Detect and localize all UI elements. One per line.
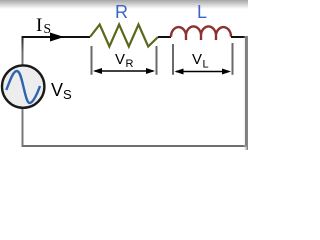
svg-text:L: L (197, 2, 207, 22)
svg-text:I: I (36, 15, 42, 36)
svg-text:R: R (126, 58, 134, 70)
svg-text:V: V (51, 80, 63, 100)
VR arrow (95, 70, 153, 72)
svg-text:S: S (44, 21, 52, 36)
wire bottom (22, 145, 248, 147)
wire left vertical from corner down to source top (22, 36, 24, 66)
svg-text:S: S (63, 87, 72, 102)
VR bracket left tick (91, 46, 93, 75)
current arrow Is (50, 33, 64, 42)
svg-text:V: V (115, 51, 125, 68)
inductor L (171, 26, 231, 40)
VL bracket left tick (172, 44, 174, 75)
sine wave (6, 71, 40, 103)
wire resistor to inductor (158, 36, 171, 38)
VR bracket right tick (156, 46, 158, 75)
right edge shade (243, 36, 248, 150)
ac source Vs (2, 65, 44, 107)
resistor R (90, 25, 158, 47)
svg-text:R: R (115, 2, 128, 22)
wire right side (245, 36, 247, 146)
wire left bottom (22, 107, 24, 146)
svg-text:V: V (192, 51, 202, 68)
wire top segment black (23, 36, 91, 38)
svg-text:L: L (203, 59, 209, 71)
wire inductor to right corner (231, 36, 246, 38)
VL arrow (176, 71, 229, 73)
VL bracket right tick (232, 43, 234, 75)
